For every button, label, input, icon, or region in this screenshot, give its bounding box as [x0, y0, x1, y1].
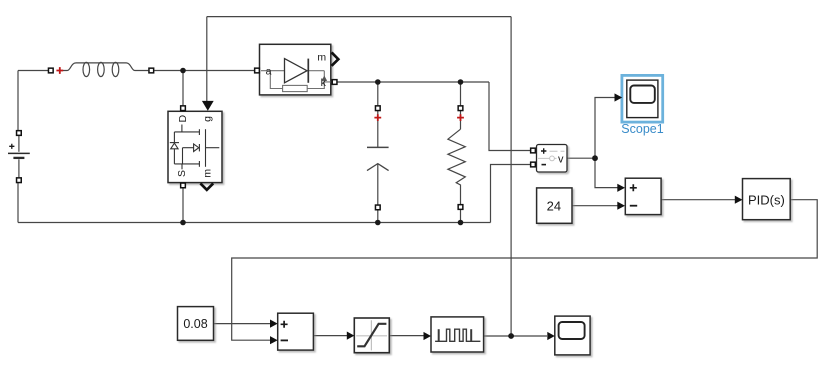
sum block S1	[625, 178, 661, 214]
port marker resistor top	[458, 106, 463, 111]
wire capacitor bottom to rail	[377, 210, 379, 222]
svg-text:k: k	[321, 77, 327, 89]
polarity plus resistor (red)	[457, 114, 464, 121]
wire junction down to sum plus	[595, 158, 618, 187]
diode block U2	[260, 44, 331, 95]
port marker battery +	[17, 131, 22, 136]
MOSFET block Q1	[168, 111, 222, 182]
wire bottom rail	[18, 222, 491, 224]
arrowhead sum2 minus input	[270, 336, 278, 344]
resistor R1 load	[448, 111, 465, 205]
wire node down to MOSFET drain	[182, 71, 184, 106]
svg-text:v: v	[558, 153, 564, 165]
arrowhead PWM input	[424, 332, 432, 340]
junction node PWM output	[508, 333, 514, 339]
port marker voltmeter -	[531, 162, 536, 167]
inductor L1	[61, 62, 149, 76]
gate input arrowhead g	[202, 101, 214, 111]
wire capacitor top drop	[377, 82, 379, 105]
PID controller block	[743, 179, 791, 220]
wire battery bottom to ground rail	[17, 183, 19, 223]
wire voltmeter output to junction	[567, 157, 595, 159]
arrowhead saturation input	[347, 332, 355, 340]
wire PWM feedback vertical	[510, 17, 512, 336]
wire top-left horizontal to inductor	[18, 70, 48, 72]
scope block Scope1 (selected)	[621, 75, 663, 136]
port marker inductor right	[149, 68, 154, 73]
junction node resistor bottom rail	[458, 220, 464, 226]
svg-text:24: 24	[547, 199, 561, 214]
arrowhead sum plus input	[617, 184, 625, 192]
wire voltage measurement minus	[491, 165, 531, 223]
junction node resistor top	[458, 79, 464, 85]
port marker resistor bottom	[458, 205, 463, 210]
wire gate feedback top rail	[207, 16, 511, 18]
port marker capacitor top	[375, 106, 380, 111]
unconnected output port m of MOSFET (chevron)	[200, 183, 213, 189]
port marker diode anode a	[255, 68, 260, 73]
arrowhead scope2 input	[547, 332, 555, 340]
wire left vertical battery top	[17, 71, 19, 131]
battery DC voltage source	[8, 136, 30, 177]
port marker battery -	[17, 178, 22, 183]
wire constant 24 to sum minus	[572, 205, 618, 207]
arrowhead PID input	[735, 196, 743, 204]
wire junction up to Scope1	[595, 98, 615, 159]
wire PWM generator to scope	[484, 335, 547, 337]
svg-text:Scope1: Scope1	[621, 122, 663, 136]
svg-text:0.08: 0.08	[183, 317, 207, 331]
wire resistor bottom to rail	[460, 210, 462, 223]
svg-text:S: S	[176, 170, 188, 177]
wire voltage measurement plus	[489, 82, 530, 151]
wire constant 0.08 to sum2 plus	[214, 323, 271, 325]
wire resistor top drop	[460, 82, 462, 105]
sum block S2	[278, 313, 314, 350]
wire MOSFET source to rail	[182, 188, 184, 222]
junction node mosfet source rail	[180, 220, 186, 226]
saturation block	[354, 318, 389, 353]
scope block Scope2	[555, 316, 590, 355]
svg-text:D: D	[177, 114, 189, 122]
junction node capacitor top	[375, 79, 381, 85]
polarity plus inductor (red)	[56, 67, 63, 74]
svg-text:g: g	[202, 116, 214, 122]
svg-text:m: m	[317, 52, 326, 64]
junction node at inductor-diode-mosfet	[180, 68, 186, 74]
polarity plus capacitor (red)	[374, 114, 381, 121]
port marker capacitor bottom	[375, 205, 380, 210]
port marker MOSFET drain D	[181, 106, 186, 111]
wire saturation to PWM generator	[389, 335, 423, 337]
arrowhead into Scope1	[615, 93, 623, 101]
unconnected output port m of diode (chevron)	[332, 52, 339, 65]
svg-text:a: a	[266, 66, 272, 78]
port marker MOSFET source S	[181, 183, 186, 188]
voltage measurement block VM	[537, 145, 568, 173]
wire inductor to diode block (through node)	[154, 70, 254, 72]
port marker voltmeter +	[531, 148, 536, 153]
junction node voltmeter output	[592, 155, 598, 161]
capacitor C1	[367, 111, 389, 205]
wire diode cathode rail	[337, 81, 489, 83]
port marker inductor left	[48, 68, 53, 73]
junction node capacitor bottom rail	[375, 220, 381, 226]
wire PID output feedback loop	[232, 200, 818, 341]
wire gate vertical drop	[206, 17, 208, 101]
constant block 0.08	[178, 307, 214, 341]
arrowhead sum2 plus input	[270, 320, 278, 328]
wire sum to PID	[661, 199, 735, 201]
arrowhead sum minus input	[617, 202, 625, 210]
constant block 24	[537, 188, 572, 223]
wire sum2 to saturation	[314, 335, 348, 337]
svg-text:PID(s): PID(s)	[748, 192, 785, 207]
svg-text:m: m	[202, 169, 214, 178]
port marker diode cathode k	[332, 80, 337, 85]
PWM generator block	[431, 317, 484, 352]
